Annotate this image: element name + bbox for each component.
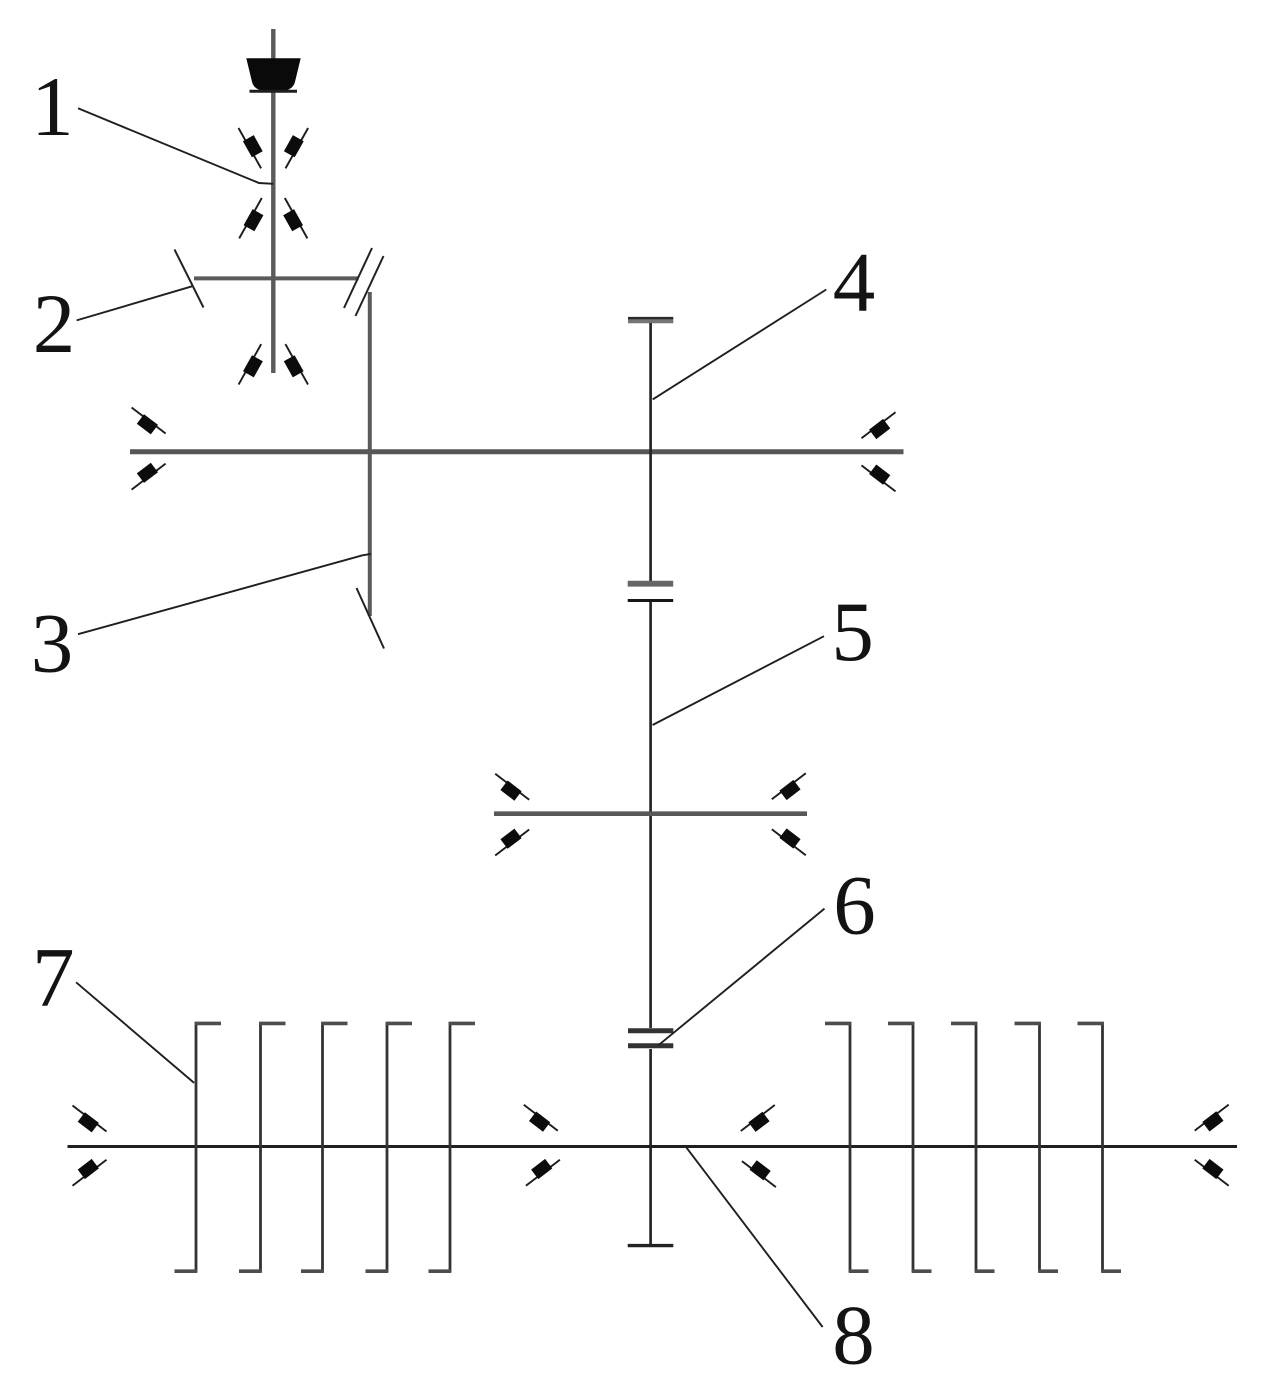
svg-text:7: 7 xyxy=(32,931,75,1025)
spline tooth 4 (right pack) bottom foot xyxy=(1038,1269,1058,1273)
bearing 5h (lower shaft right end, below) xyxy=(1195,1159,1229,1186)
gear 4 top cap xyxy=(628,318,673,321)
spline tooth 5 (right pack) top foot xyxy=(1078,1022,1104,1026)
bearing 5a (lower shaft left end, above) xyxy=(73,1106,107,1133)
spline tooth 3 (right pack) bottom foot xyxy=(975,1269,995,1273)
leader line 6 xyxy=(659,909,825,1046)
bearing 3b (upper shaft left, below) xyxy=(132,463,166,490)
spline tooth 2 (right pack) vertical xyxy=(912,1022,915,1272)
bevel gear double slash (right end of bar) xyxy=(344,248,384,316)
bearing 5g (lower shaft right end, above) xyxy=(1195,1105,1229,1132)
svg-text:8: 8 xyxy=(832,1289,875,1383)
spline tooth 2 (left pack) top foot xyxy=(259,1022,285,1026)
bearing 3d (upper shaft right, below) xyxy=(862,465,896,492)
bearing 2b (input shaft bottom-right) xyxy=(284,344,308,384)
spline tooth 1 (left pack) vertical xyxy=(195,1022,198,1272)
spline tooth 3 (right pack) top foot xyxy=(951,1022,977,1026)
spline tooth 3 (left pack) bottom foot xyxy=(301,1269,324,1273)
spline tooth 2 (right pack) bottom foot xyxy=(912,1269,932,1273)
svg-text:4: 4 xyxy=(833,236,876,330)
svg-text:1: 1 xyxy=(31,60,74,154)
bearing 5b (lower shaft left end, below) xyxy=(73,1159,107,1186)
bearing 1b (input shaft upper-right) xyxy=(284,128,308,168)
bearing 1c (input shaft lower-left) xyxy=(239,198,263,238)
svg-text:3: 3 xyxy=(31,597,74,691)
leader line 2 xyxy=(77,286,192,320)
spline tooth 4 (left pack) vertical xyxy=(386,1022,389,1272)
spline tooth 1 (left pack) top foot xyxy=(195,1022,221,1026)
svg-text:2: 2 xyxy=(33,277,76,371)
bearing 4d (middle bar right, below) xyxy=(772,828,806,855)
spline tooth 5 (left pack) bottom foot xyxy=(429,1269,452,1273)
bearing 5f (lower shaft mid-right, below) xyxy=(742,1160,776,1187)
leader line 5 xyxy=(653,636,824,725)
bearing 4b (middle bar left, below) xyxy=(495,829,529,856)
spline tooth 5 (left pack) top foot xyxy=(449,1022,475,1026)
coupling 6 top bar xyxy=(628,1028,673,1033)
spline tooth 2 (right pack) top foot xyxy=(888,1022,914,1026)
bearing 4a (middle bar left, above) xyxy=(495,774,529,801)
bearing 2a (input shaft bottom-left) xyxy=(239,344,263,384)
bearing 4c (middle bar right, above) xyxy=(772,773,806,800)
bearing 3a (upper shaft left, above) xyxy=(132,408,166,435)
bearing 5d (lower shaft mid-left, below) xyxy=(526,1159,560,1186)
leader line 4 xyxy=(653,290,827,400)
gear 4 shaft segment (vertical) xyxy=(649,323,652,581)
lower long horizontal shaft (component 8) xyxy=(68,1145,1238,1148)
spline tooth 4 (right pack) vertical xyxy=(1038,1022,1041,1272)
bevel gear bar (horizontal, component 2) xyxy=(194,276,359,280)
spline tooth 4 (left pack) top foot xyxy=(386,1022,412,1026)
bottom cap xyxy=(628,1244,674,1247)
bearing 3c (upper shaft right, above) xyxy=(862,412,896,439)
leader line 8 xyxy=(687,1148,823,1327)
spline tooth 5 (left pack) vertical xyxy=(449,1022,452,1272)
upper coupling bottom bar xyxy=(628,599,674,602)
spline tooth 1 (right pack) vertical xyxy=(849,1022,852,1272)
leader line 3 xyxy=(78,554,371,634)
lower vertical shaft segment xyxy=(649,1049,652,1245)
spline tooth 5 (right pack) vertical xyxy=(1101,1022,1104,1272)
spline tooth 2 (left pack) vertical xyxy=(259,1022,262,1272)
bowl base plate xyxy=(250,90,298,93)
spline tooth 5 (right pack) bottom foot xyxy=(1101,1269,1121,1273)
bearing 1d (input shaft lower-right) xyxy=(283,198,307,238)
input shaft (vertical, top-left) xyxy=(271,29,275,373)
svg-text:6: 6 xyxy=(833,859,876,953)
spline tooth 1 (left pack) bottom foot xyxy=(175,1269,198,1273)
spline tooth 4 (left pack) bottom foot xyxy=(366,1269,389,1273)
spline tooth 3 (left pack) vertical xyxy=(321,1022,324,1272)
upper long horizontal shaft xyxy=(130,449,904,454)
leader line 7 xyxy=(76,982,194,1083)
gear 5 shaft segment (vertical) xyxy=(649,602,652,1028)
middle bearing bar (horizontal) xyxy=(494,811,807,816)
spline tooth 3 (left pack) top foot xyxy=(321,1022,347,1026)
leader line 1 xyxy=(78,108,273,184)
coupling 6 bottom bar xyxy=(628,1043,673,1048)
spline tooth 1 (right pack) bottom foot xyxy=(849,1269,869,1273)
bevel gear slash (bottom of intermediate shaft) xyxy=(357,588,385,649)
bevel gear tooth slash (left end of bar) xyxy=(175,250,204,308)
upper coupling top bar xyxy=(628,581,674,587)
spline tooth 3 (right pack) vertical xyxy=(975,1022,978,1272)
intermediate vertical shaft (component 3) xyxy=(368,292,372,616)
motor/input bowl symbol on input shaft xyxy=(246,58,300,91)
spline tooth 1 (right pack) top foot xyxy=(825,1022,851,1026)
bearing 5c (lower shaft mid-left, above) xyxy=(524,1105,558,1132)
svg-text:5: 5 xyxy=(831,585,874,679)
bearing 1a (input shaft upper-left) xyxy=(239,128,263,168)
bearing 5e (lower shaft mid-right, above) xyxy=(741,1105,775,1132)
spline tooth 4 (right pack) top foot xyxy=(1015,1022,1041,1026)
spline tooth 2 (left pack) bottom foot xyxy=(239,1269,262,1273)
